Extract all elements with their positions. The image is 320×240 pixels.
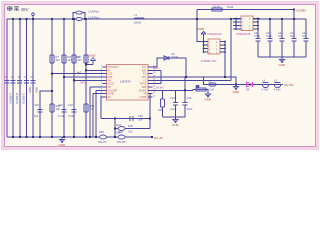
svg-text:10uF: 10uF — [187, 107, 193, 111]
ground GND (after fuse) — [205, 94, 213, 102]
resistor R10 — [75, 55, 88, 63]
wire x74 column — [73, 19, 75, 137]
svg-text:VIN: VIN — [108, 80, 112, 82]
svg-text:FB: FB — [144, 94, 147, 96]
svg-text:SRB: SRB — [142, 87, 147, 89]
wire into pin CSP — [64, 76, 103, 78]
IC U4 (8-pin optocoupler) — [203, 39, 226, 55]
svg-text:24V: 24V — [80, 80, 85, 84]
junction dots on y22 bus — [230, 18, 295, 20]
node DC48V — [293, 9, 295, 11]
svg-text:SS14: SS14 — [227, 5, 234, 9]
svg-text:4.7uH: 4.7uH — [262, 88, 269, 92]
svg-text:GND: GND — [198, 27, 206, 31]
svg-text:ZD2: ZD2 — [128, 124, 133, 128]
svg-text:AC380-C: AC380-C — [21, 93, 25, 104]
svg-text:C32: C32 — [68, 103, 73, 107]
IC U2 (8-pin) — [233, 16, 260, 31]
bottom bus junction dots — [12, 136, 116, 138]
capacitor C36 on y120 — [130, 116, 133, 121]
wire L from EN pin down to feedback — [101, 97, 103, 119]
wire x115 tie — [114, 119, 116, 138]
wire U2 right pin tie — [257, 19, 259, 30]
svg-text:GND: GND — [279, 63, 287, 67]
wire L into pin SS — [90, 86, 103, 88]
svg-text:4.7uH: 4.7uH — [207, 88, 214, 92]
U3 right pin names — [139, 67, 148, 99]
U3 left pin stubs — [103, 67, 107, 97]
junction dots top bus — [12, 18, 87, 20]
wire BST tie vertical — [160, 70, 162, 83]
wire drop x258 — [257, 29, 259, 38]
capacitor C22 — [268, 39, 273, 42]
svg-text:AGND: AGND — [108, 93, 115, 96]
diode D8 on bus — [117, 130, 126, 144]
title 电源48V — [8, 6, 20, 11]
sheet border frame — [1, 1, 319, 150]
capacitor C2 on phase wire 2 — [11, 75, 16, 83]
svg-text:47uF: 47uF — [266, 34, 272, 38]
capacitor C34 — [183, 96, 193, 111]
svg-text:AC380-A: AC380-A — [8, 93, 12, 104]
svg-text:10k: 10k — [56, 107, 61, 111]
capacitor C33 — [170, 96, 178, 111]
svg-text:PGND: PGND — [140, 84, 147, 86]
svg-text:SS34: SS34 — [172, 55, 179, 59]
resistor R32 — [158, 99, 165, 112]
inductor L1 — [135, 18, 145, 19]
main IC U3 LM5576 — [107, 65, 149, 101]
svg-text:DC-4V: DC-4V — [154, 136, 163, 140]
capacitor C31 — [58, 103, 67, 118]
svg-text:VCC: VCC — [142, 77, 147, 79]
svg-text:C31: C31 — [58, 103, 63, 107]
svg-text:GND: GND — [59, 143, 67, 147]
resistor R31 — [84, 104, 95, 112]
ground GND (U4 left pins) — [198, 27, 207, 36]
wire x150 FB riser — [149, 94, 151, 129]
U3 right pin stubs — [148, 67, 153, 97]
junction + ground GND (chain) — [233, 84, 241, 95]
wire x52 column — [51, 19, 53, 137]
svg-text:GND: GND — [233, 90, 241, 94]
svg-text:SYNCOUT: SYNCOUT — [108, 67, 120, 69]
svg-text:48V: 48V — [21, 7, 30, 12]
wire long row LO y81 — [153, 79, 232, 81]
wire corner to fuse box — [193, 89, 196, 92]
fuse FU2 (oval, on wire) — [76, 18, 82, 21]
svg-text:F1 3A: F1 3A — [213, 5, 220, 9]
svg-text:2W 47k: 2W 47k — [117, 140, 126, 144]
output chain y84.5 — [204, 77, 284, 85]
inductor L3 — [207, 80, 216, 92]
wire x185 drop to VOUT row — [184, 77, 186, 90]
svg-text:GND: GND — [28, 87, 32, 93]
svg-text:COMP: COMP — [140, 97, 147, 99]
wire drop x306 — [305, 19, 307, 38]
svg-text:104: 104 — [290, 34, 295, 38]
svg-text:R10: R10 — [75, 55, 80, 59]
svg-text:104: 104 — [34, 114, 39, 118]
wire x86 column — [85, 19, 87, 137]
wire to GND — [206, 90, 208, 94]
fuse FU1 (oval, parallel branch) — [72, 11, 86, 20]
phase wire 1 — [12, 19, 14, 137]
svg-text:4.7uH: 4.7uH — [274, 88, 281, 92]
wire top bus y19 — [7, 19, 306, 137]
svg-text:DC48V: DC48V — [297, 9, 307, 13]
wire U4 left pin tie to GND — [203, 36, 205, 52]
svg-text:100uH: 100uH — [134, 21, 142, 25]
bottom bus — [7, 136, 100, 138]
svg-text:4k7: 4k7 — [56, 58, 61, 62]
wire into pin VIN — [74, 79, 103, 81]
svg-text:BST: BST — [142, 70, 147, 72]
wire VOUT caps bottom bus — [163, 116, 186, 118]
svg-text:15V: 15V — [128, 130, 133, 134]
svg-text:LO: LO — [143, 80, 146, 82]
node DC-4V — [151, 136, 153, 138]
wire x197 down to U4 — [197, 19, 204, 42]
ground GND cap bank — [279, 57, 287, 67]
capacitor C25 — [304, 39, 309, 42]
svg-text:LM5576: LM5576 — [120, 80, 131, 84]
svg-text:104: 104 — [138, 118, 143, 122]
phase wire 3 — [26, 19, 28, 137]
svg-text:GND: GND — [205, 98, 213, 102]
svg-text:4k7: 4k7 — [77, 71, 82, 75]
feedback wire y120 — [101, 118, 150, 120]
capacitor C21 — [256, 39, 261, 42]
svg-text:C93HWJ28: C93HWJ28 — [236, 32, 251, 36]
svg-text:1N6082 10V: 1N6082 10V — [201, 59, 217, 63]
svg-text:GND: GND — [172, 123, 180, 127]
svg-text:1.5A/Plus: 1.5A/Plus — [88, 10, 100, 14]
svg-text:GND: GND — [89, 54, 97, 58]
wire stub pin VCT — [153, 66, 158, 68]
svg-text:2W 47k: 2W 47k — [98, 140, 107, 144]
wire U4 right pin tie down — [224, 42, 226, 78]
phase wire 4 — [32, 19, 34, 137]
svg-text:5Vs: 5Vs — [154, 66, 159, 70]
ground GND (VOUT caps) — [172, 117, 180, 127]
U3 left pin names — [108, 67, 120, 99]
svg-text:C30: C30 — [34, 103, 39, 107]
capacitor C3 on phase wire 3 — [17, 75, 22, 83]
power symbol (red) on top bus — [32, 13, 35, 19]
wire loop right x231 — [230, 19, 232, 80]
phase wire 2 — [19, 19, 21, 137]
svg-text:SS: SS — [108, 87, 112, 89]
wire drop x175.5 — [175, 90, 177, 102]
svg-text:4.7uF: 4.7uF — [58, 114, 65, 118]
wire top line y9.5 — [197, 9, 294, 11]
wire cap bank bottom bus — [258, 56, 306, 58]
svg-text:UVLO: UVLO — [108, 84, 114, 86]
svg-text:EN: EN — [108, 97, 112, 99]
resistor R9 — [72, 55, 82, 63]
capacitor C1 on phase wire 1 — [5, 75, 10, 83]
svg-text:CSS: CSS — [108, 74, 113, 76]
diode D2 — [116, 123, 125, 135]
svg-text:C34: C34 — [187, 96, 192, 100]
resistor R8 — [62, 55, 72, 63]
svg-text:C33: C33 — [170, 96, 175, 100]
capacitor C23 — [280, 39, 285, 42]
wire drop x162.5 — [162, 90, 164, 99]
svg-text:14.8V: 14.8V — [156, 86, 163, 90]
wire y128.5 row — [115, 128, 150, 130]
wire into pin CSS — [52, 73, 103, 75]
capacitor C4 on phase wire 4 — [24, 75, 29, 83]
resistor R7 — [50, 55, 60, 63]
zener Z2 (magenta) — [246, 82, 253, 92]
wire x64 column — [63, 19, 65, 137]
wire drop x270 — [269, 19, 271, 38]
svg-text:SLOPE: SLOPE — [139, 90, 147, 92]
ground GND (bottom bus) — [59, 137, 67, 147]
svg-text:47uF: 47uF — [68, 114, 74, 118]
svg-text:104: 104 — [278, 34, 283, 38]
bead FB1 — [262, 79, 269, 92]
capacitor C30 — [34, 103, 43, 118]
wire VOUT row y91.5 — [153, 89, 194, 91]
wire L into pin SYNC — [96, 89, 103, 91]
wire U2 left pin tie — [235, 19, 237, 30]
wire long row VCC y77.5 — [153, 77, 237, 85]
svg-text:GND: GND — [35, 87, 39, 93]
svg-text:C93HWJ28: C93HWJ28 — [207, 32, 222, 36]
wire into pin RT — [86, 69, 103, 71]
svg-text:D9: D9 — [246, 88, 250, 92]
wire drop x282 — [281, 19, 283, 38]
wire drop x185 cap — [184, 90, 186, 102]
bead FB2 — [274, 79, 281, 92]
wire GND stub — [86, 64, 93, 66]
capacitor C5 on phase wire 5 — [31, 75, 36, 83]
svg-text:CSP: CSP — [108, 77, 113, 79]
diode D7 on bus — [98, 130, 107, 144]
capacitor C24 — [292, 39, 297, 42]
svg-text:1.5A/Plus: 1.5A/Plus — [88, 15, 100, 19]
capacitor C32 — [68, 103, 77, 118]
svg-text:SYNC/RT: SYNC/RT — [108, 90, 119, 92]
svg-text:47uF: 47uF — [254, 34, 260, 38]
diode D1 on SW node — [157, 52, 186, 67]
svg-text:104: 104 — [302, 34, 307, 38]
U3 pin numbers — [100, 65, 103, 97]
svg-text:DC-5V: DC-5V — [285, 83, 294, 87]
ground GND (near R10) — [89, 54, 97, 65]
fuse F1 — [212, 8, 222, 11]
wire x186 drop — [185, 58, 187, 77]
resistor R30 — [50, 104, 61, 112]
wire riser x197 — [196, 10, 198, 20]
svg-text:R36: R36 — [118, 130, 123, 134]
wire drop x294 — [293, 10, 295, 39]
wire L into pin AGND — [93, 93, 103, 95]
wire branch to x40 — [40, 91, 52, 137]
svg-text:AC380-B: AC380-B — [15, 93, 19, 104]
svg-text:VCT: VCT — [142, 67, 147, 69]
svg-text:C36: C36 — [138, 114, 143, 118]
svg-text:R35: R35 — [99, 130, 104, 134]
fuse F5 — [196, 85, 206, 92]
